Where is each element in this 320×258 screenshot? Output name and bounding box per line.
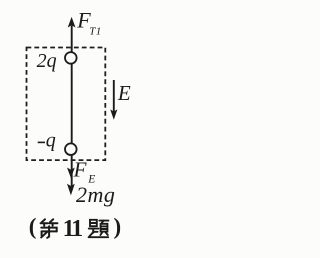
- caption hanzi TI (题): [89, 220, 109, 237]
- svg-text:2q: 2q: [37, 50, 57, 72]
- charge +2q (top sphere): [65, 52, 77, 64]
- svg-text:F: F: [73, 158, 87, 182]
- arrow 2mg (downward weight arrow): [67, 184, 75, 196]
- svg-text:11: 11: [63, 216, 82, 242]
- arrow F_E (downward electric force arrow): [67, 168, 75, 179]
- label -q: [38, 141, 45, 143]
- svg-text:q: q: [46, 130, 56, 152]
- dashed boundary box: [27, 48, 106, 161]
- svg-text:2mg: 2mg: [76, 182, 115, 207]
- svg-text:): ): [114, 214, 122, 239]
- charge -q (bottom sphere): [65, 143, 77, 155]
- arrow F_T1 (upward tension arrow): [68, 17, 76, 28]
- caption hanzi DI (第): [41, 219, 58, 238]
- svg-text:E: E: [117, 81, 131, 105]
- arrow E (downward field arrow): [113, 80, 115, 112]
- wire (string through both charges): [71, 26, 73, 191]
- svg-text:(: (: [29, 214, 37, 239]
- svg-text:T1: T1: [89, 26, 102, 38]
